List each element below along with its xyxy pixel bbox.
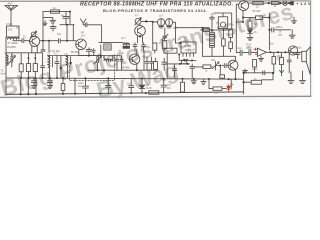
resistor R2: [19, 53, 23, 78]
small box on rail: [220, 75, 225, 78]
wire vertical x202.4: [201, 28, 203, 57]
wire pot out: [216, 66, 221, 76]
resistor R10: [181, 60, 186, 63]
wire bottom osc y70.2: [88, 69, 158, 71]
svg-text:114: 114: [81, 35, 86, 38]
variable capacitor C2: [9, 53, 16, 67]
svg-text:10.7: 10.7: [167, 50, 172, 53]
resistor R19 1k: [244, 80, 262, 84]
transistor Q5 legs: [234, 56, 236, 79]
ground bus bottom: [6, 92, 244, 95]
svg-text:4.7: 4.7: [54, 52, 58, 55]
transistor Q2: [76, 39, 87, 50]
svg-text:RECEPTOR 88-108MHZ UHF FM PRA: RECEPTOR 88-108MHZ UHF FM PRA 110 ATUALI…: [80, 1, 233, 7]
svg-text:LN: LN: [215, 92, 218, 95]
transistor Q4 legs: [136, 49, 138, 70]
resistor R23: [213, 87, 222, 90]
ceramic filter F2: [166, 19, 173, 26]
capacitor C emitter: [86, 48, 91, 56]
capacitor 2200u: [269, 28, 290, 32]
left rail wire: [5, 37, 7, 94]
svg-text:2u2: 2u2: [238, 47, 243, 50]
box L5 can: [104, 44, 111, 50]
resistor R4: [33, 53, 37, 78]
svg-text:1C: 1C: [23, 36, 26, 39]
transistor Q5: [228, 60, 238, 70]
svg-text:220u: 220u: [252, 68, 258, 71]
wire y63.9: [164, 63, 189, 65]
resistor R22: [180, 79, 184, 92]
loop top wire: [43, 11, 70, 13]
node dots top left: [69, 11, 71, 13]
svg-text:ANT: ANT: [8, 3, 13, 6]
input coil T0 box: [7, 26, 20, 39]
ground G3: [288, 72, 294, 84]
capacitor C10: [172, 64, 176, 78]
capacitor C21: [145, 57, 149, 70]
capacitor C1 2p: [63, 12, 69, 25]
capacitor series on collector wire: [59, 39, 61, 43]
resistor R5: [153, 43, 157, 53]
capacitor C18: [106, 78, 111, 93]
box 10.7 filter: [164, 48, 177, 78]
loop left wire: [42, 12, 44, 41]
svg-text:2N3866: 2N3866: [7, 46, 16, 49]
supply plug: [291, 2, 294, 5]
antenna 2: [81, 19, 87, 25]
svg-text:BC328: BC328: [253, 10, 261, 13]
power rail right vertical: [268, 13, 270, 50]
trimmer capacitor above Q1: [31, 31, 37, 37]
diode D2: [139, 79, 144, 94]
wire column x36: [35, 78, 37, 94]
wire y27.7: [176, 27, 210, 29]
antenna ANT: [5, 6, 18, 27]
svg-text:4T 08MZ: 4T 08MZ: [8, 42, 18, 45]
wire y30: [201, 29, 231, 31]
capacitor C22: [150, 57, 154, 70]
svg-text:BF494: BF494: [122, 67, 130, 70]
wire base T1: [13, 40, 29, 42]
svg-text:10S: 10S: [8, 28, 13, 31]
wire right column: [243, 73, 245, 94]
wire drop x49: [48, 41, 50, 53]
wire emitter row: [79, 55, 101, 57]
Q6 leg: [242, 11, 244, 23]
coil marks: [183, 59, 188, 60]
wire bottom of loop: [60, 24, 74, 26]
wire x236 down: [235, 22, 237, 52]
resistor R18: [280, 52, 284, 73]
capacitor C11: [190, 64, 195, 78]
wire vertical x67: [66, 25, 68, 41]
resistor R20 column: [61, 78, 65, 94]
resistor R8: [222, 30, 226, 56]
transistor Q4: [129, 54, 140, 64]
wire Q6 left: [236, 4, 243, 22]
capacitor C15 with ground: [31, 78, 36, 89]
wire y56.3: [202, 55, 235, 57]
wire vertical x60.9: [60, 56, 62, 78]
svg-text:BF494: BF494: [71, 51, 79, 54]
variable capacitor C5: [94, 56, 102, 71]
lamp LP1: [283, 1, 287, 5]
svg-text:47n: 47n: [211, 13, 216, 16]
resistor R6 vertical: [163, 38, 167, 49]
red mark: [254, 48, 256, 50]
capacitor C12: [222, 64, 228, 68]
capacitor C8: [142, 43, 146, 51]
feedback capacitor C14: [263, 71, 265, 75]
wire filter out: [173, 22, 176, 43]
inductor L3: [48, 56, 52, 78]
svg-text:2200u: 2200u: [295, 47, 303, 50]
supply rail y78: [6, 78, 244, 79]
svg-text:10.7: 10.7: [159, 14, 164, 17]
wire y13: [214, 13, 232, 29]
trimmer above R6: [162, 28, 168, 40]
LED D3 red: [227, 83, 233, 91]
speaker SP1: [302, 47, 310, 74]
ground G6: [201, 79, 206, 84]
capacitor antenna series: [85, 23, 87, 27]
frame right: [310, 1, 312, 97]
wire trimmer to filter: [141, 21, 158, 43]
svg-text:110n: 110n: [127, 83, 133, 86]
wire LED branch: [209, 79, 231, 89]
resistor R16: [253, 60, 257, 73]
ground left small: [43, 21, 47, 26]
svg-text:2200u: 2200u: [275, 26, 283, 29]
wire vertical x144: [143, 51, 145, 71]
resistor R5b: [154, 58, 158, 70]
capacitor 47n: [210, 16, 214, 28]
op-amp U2: [255, 48, 266, 56]
wire y42.6: [99, 42, 123, 44]
transistor Q2 emitter leg: [78, 49, 80, 55]
wire drop x43: [41, 41, 45, 52]
resistor R14 22: [253, 2, 263, 5]
svg-text:5k6: 5k6: [254, 23, 259, 26]
frame bottom: [0, 96, 311, 97]
dashed gang link: [69, 54, 114, 81]
top rail y3: [249, 2, 291, 4]
watermark line 1: [0, 0, 296, 101]
capacitor series 10p: [50, 25, 56, 31]
svg-text:10p: 10p: [57, 33, 62, 36]
filter grounds: [159, 27, 172, 28]
capacitor C20: [161, 79, 166, 93]
ground G5: [191, 79, 197, 84]
ground small audio: [243, 69, 248, 73]
transistor Q7: [288, 46, 297, 55]
svg-text:150: 150: [10, 55, 15, 58]
wire down from dot273: [261, 73, 273, 80]
node dots mid: [88, 55, 90, 57]
transistor Q1 legs: [32, 46, 37, 53]
svg-text:+VL: +VL: [253, 31, 258, 34]
loop right wire: [69, 12, 71, 25]
wire column x28.3: [27, 78, 29, 94]
resistor R21 on bus: [149, 91, 159, 94]
resistor R3: [26, 53, 30, 78]
audio cap C9: [162, 58, 167, 70]
transformer L4: [123, 43, 129, 48]
svg-text:10.7: 10.7: [121, 37, 126, 40]
wire vertical x100.8: [100, 45, 102, 58]
inductor L1: [7, 53, 9, 66]
capacitor C4: [55, 56, 59, 78]
wire y17.4: [243, 16, 256, 18]
transistor Q3 legs: [138, 36, 143, 43]
wire mid rail y55.5: [48, 55, 121, 57]
wire vertical x73: [72, 25, 74, 41]
resistor R11: [203, 65, 212, 69]
svg-text:5mH: 5mH: [1, 73, 6, 76]
input caps audio: [236, 50, 257, 56]
ground G2: [289, 30, 295, 38]
capacitor C16 with ground: [47, 78, 52, 88]
capacitor C3: [41, 53, 45, 78]
oscillator top wire: [6, 52, 43, 54]
svg-text:4.7: 4.7: [135, 14, 139, 17]
trimmer capacitor CT: [135, 18, 141, 25]
inductor L5: [104, 56, 113, 61]
capacitor output: [296, 52, 300, 58]
svg-text:4148: 4148: [146, 87, 152, 90]
capacitor C polarized: [92, 49, 95, 56]
wire IC left: [176, 42, 182, 44]
capacitor C6 pair: [115, 56, 123, 71]
transistor Q1: [29, 36, 39, 46]
ground G1 top: [291, 17, 296, 24]
ground under zener: [247, 37, 253, 40]
IF can box: [218, 13, 227, 29]
ground G4: [300, 71, 306, 84]
svg-text:1.10n: 1.10n: [188, 52, 195, 55]
svg-text:+12V: +12V: [296, 1, 311, 6]
wire collector row: [40, 40, 76, 42]
svg-text:10u: 10u: [247, 46, 252, 49]
resistor R7 on wire: [204, 28, 210, 31]
regulator transistor Q6: [239, 1, 249, 11]
resistor R9b: [229, 42, 233, 52]
svg-text:3910: 3910: [184, 39, 190, 42]
resistor R13: [248, 17, 252, 28]
svg-text:47uH: 47uH: [6, 23, 12, 26]
resistor R15 1k: [271, 2, 279, 5]
resistor R9: [229, 29, 233, 42]
resistor R1 1k: [51, 10, 60, 13]
wire to volume: [194, 66, 203, 68]
svg-text:22n: 22n: [270, 43, 275, 46]
capacitor C13: [287, 52, 291, 73]
wire IC bottom rail: [179, 54, 196, 60]
IF transformer T2: [210, 30, 215, 56]
headphone jack J1: [280, 70, 284, 76]
capacitor C19: [129, 78, 134, 93]
resistor R17: [272, 52, 276, 73]
ground in loop: [43, 18, 56, 24]
watermark line 2: [94, 57, 181, 104]
inductor L2: [66, 56, 70, 78]
capacitor C7: [133, 43, 137, 51]
wire column x20.7: [20, 78, 22, 94]
wire antenna2: [83, 25, 101, 43]
svg-text:BLOG:PROJETOS E TRANSISTORES 0: BLOG:PROJETOS E TRANSISTORES 04 2024.: [103, 8, 207, 13]
ground under op-amp: [258, 56, 263, 61]
capacitor on base wire: [22, 39, 24, 43]
op-amp output wire: [266, 51, 301, 53]
resistor R12: [256, 16, 270, 20]
potentiometer P1: [212, 62, 219, 71]
capacitor C17: [83, 78, 89, 94]
audio bottom wire: [244, 72, 273, 74]
transistor Q3: [135, 24, 146, 36]
ceramic filter F1: [158, 19, 165, 26]
wire column x75: [74, 78, 76, 94]
frame top: [0, 0, 311, 2]
IC U1 box: [181, 42, 196, 56]
zener diode D1: [248, 28, 253, 37]
